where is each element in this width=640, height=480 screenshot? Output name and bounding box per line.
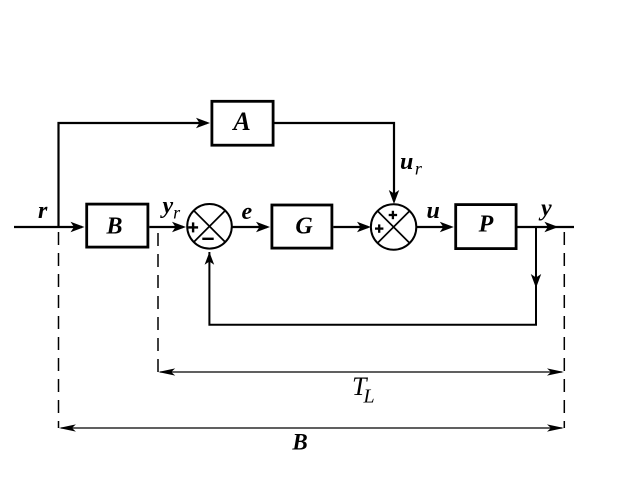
block G: [272, 205, 332, 248]
svg-text:e: e: [242, 199, 253, 225]
dashed guide line at y_r: [157, 233, 159, 372]
svg-text:B: B: [291, 430, 307, 455]
summing junction S1: [187, 204, 232, 249]
wire: B to summer S1: [149, 222, 186, 232]
wire: P output y: [518, 222, 575, 232]
svg-text:u: u: [427, 198, 440, 224]
dashed guide line at y: [563, 232, 565, 428]
wire: G to summer S2: [333, 222, 371, 232]
summing junction S2: [371, 204, 416, 249]
svg-text:G: G: [295, 214, 313, 240]
block B: [87, 204, 148, 247]
svg-text:P: P: [478, 212, 494, 238]
wire: reference input r: [14, 222, 85, 232]
svg-text:TL: TL: [352, 372, 375, 408]
svg-text:r: r: [38, 198, 48, 224]
measurement arrow B: [59, 424, 564, 431]
svg-text:A: A: [231, 107, 250, 136]
dashed guide line at r branch: [58, 232, 60, 428]
measurement arrow T_L: [158, 368, 564, 375]
svg-text:B: B: [105, 214, 122, 240]
block P: [456, 205, 516, 249]
svg-text:y: y: [538, 196, 552, 222]
wire: S1 to G: [232, 222, 270, 232]
wire: branch up to block A: [59, 118, 211, 227]
wire: S2 to P: [416, 222, 454, 232]
wire: A output down to summer S2: [275, 123, 400, 204]
wire: feedback loop: [205, 227, 542, 325]
svg-text:yr: yr: [160, 193, 182, 223]
block A: [212, 101, 273, 145]
svg-text:ur: ur: [400, 149, 423, 179]
